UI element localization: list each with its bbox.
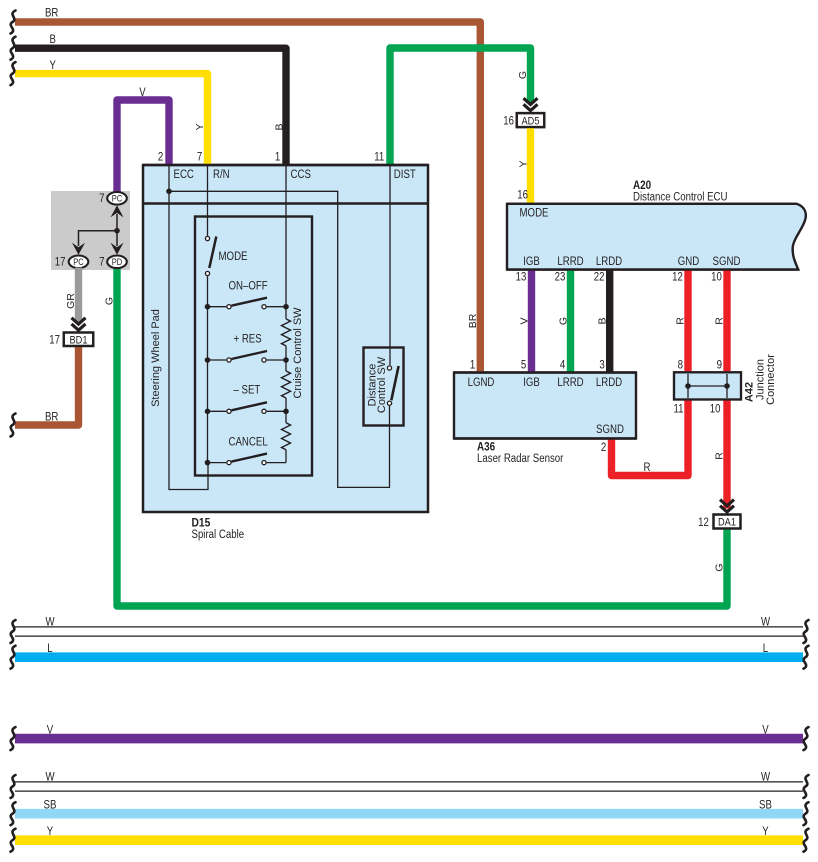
- switch ON-OFF: [205, 280, 289, 309]
- svg-text:G: G: [103, 297, 115, 305]
- switch Distance Control SW: [367, 356, 399, 487]
- svg-text:AD5: AD5: [522, 115, 540, 127]
- svg-text:4: 4: [560, 359, 566, 371]
- svg-text:16: 16: [503, 115, 514, 127]
- svg-text:R/N: R/N: [213, 169, 230, 181]
- svg-text:12: 12: [698, 517, 709, 529]
- wire Y: top horizontal to D15 pin 7 R/N: [11, 60, 208, 164]
- shielded/relay grey block around PC-PD connectors: [51, 191, 130, 270]
- svg-text:Control SW: Control SW: [376, 356, 388, 413]
- left contact rail of cruise switches: [207, 276, 209, 462]
- svg-text:22: 22: [594, 271, 605, 283]
- wire BR: from BD1 down and left to body harness: [11, 346, 79, 437]
- svg-text:V: V: [47, 724, 54, 736]
- wire BR label near A36: [467, 313, 479, 328]
- svg-text:16: 16: [517, 190, 528, 202]
- resistor between ON-OFF and +RES: [282, 319, 291, 346]
- svg-text:10: 10: [711, 271, 722, 283]
- switch MODE: [205, 236, 247, 275]
- svg-text:B: B: [50, 34, 57, 46]
- label D15 Spiral Cable: [192, 518, 245, 541]
- down arrow into 7 PD: [111, 231, 124, 255]
- svg-text:PD: PD: [112, 257, 123, 267]
- wire V: from D15 pin 2 ECC up and over to connector 7 PC: [117, 87, 169, 192]
- wire B: top horizontal to D15 pin 1 CCS: [11, 34, 287, 164]
- svg-text:Y: Y: [194, 123, 206, 130]
- svg-text:SGND: SGND: [713, 256, 741, 268]
- A42 pin numbers: [674, 359, 723, 415]
- svg-text:1: 1: [470, 359, 475, 371]
- svg-text:LRDD: LRDD: [596, 377, 622, 389]
- svg-text:R: R: [674, 317, 686, 325]
- junction node in grey block: [114, 228, 120, 234]
- switch CANCEL: [205, 436, 286, 465]
- svg-text:GND: GND: [678, 256, 700, 268]
- A42 junction connector block (body): [674, 372, 741, 399]
- wire V: A20 pin 13 IGB to A36 pin 5 IGB: [518, 270, 531, 372]
- svg-text:Y: Y: [47, 826, 54, 838]
- cruise control switch assembly box: [195, 217, 312, 476]
- svg-text:W: W: [761, 772, 770, 784]
- svg-text:V: V: [762, 724, 769, 736]
- svg-text:2: 2: [601, 442, 606, 454]
- svg-text:Spiral Cable: Spiral Cable: [192, 529, 245, 541]
- A36 pin 2 number: [601, 442, 606, 454]
- svg-text:+ RES: + RES: [234, 333, 262, 345]
- svg-text:CANCEL: CANCEL: [229, 436, 269, 448]
- svg-text:BR: BR: [45, 412, 58, 424]
- label A42 Junction Connector: [744, 354, 777, 405]
- switch - SET: [205, 384, 289, 414]
- arrow up into 7 PC with stem from junction: [111, 205, 124, 231]
- wire W bus run 2: [11, 772, 809, 798]
- svg-text:BD1: BD1: [70, 334, 88, 346]
- label A36 Laser Radar Sensor: [477, 442, 564, 465]
- A20 bottom pin numbers: [516, 271, 722, 283]
- svg-text:7: 7: [99, 193, 104, 205]
- svg-text:Laser Radar Sensor: Laser Radar Sensor: [477, 453, 564, 465]
- svg-text:DIST: DIST: [394, 169, 416, 181]
- svg-text:V: V: [139, 87, 146, 99]
- svg-text:LRRD: LRRD: [557, 256, 583, 268]
- svg-text:SGND: SGND: [596, 424, 624, 436]
- A42 junction connector border (over wires): [674, 372, 741, 399]
- A36 pin label SGND: [596, 424, 624, 436]
- svg-text:L: L: [47, 643, 53, 655]
- svg-text:2: 2: [158, 152, 163, 164]
- wire G: A20 pin 23 LRRD to A36 pin 4 LRRD: [557, 270, 570, 372]
- wire Y bus run: [11, 826, 809, 852]
- svg-text:9: 9: [717, 359, 722, 371]
- svg-text:MODE: MODE: [520, 208, 549, 220]
- wire R: A42 pin 10 down to connector DA1: [713, 401, 727, 509]
- svg-text:11: 11: [674, 404, 684, 416]
- svg-text:GR: GR: [65, 293, 77, 309]
- wire GR: from 17 PC down to connector BD1: [65, 268, 79, 323]
- svg-text:Steering Wheel Pad: Steering Wheel Pad: [150, 309, 162, 407]
- svg-text:12: 12: [672, 271, 683, 283]
- svg-text:DA1: DA1: [718, 517, 736, 529]
- svg-text:Cruise Control SW: Cruise Control SW: [292, 307, 304, 399]
- svg-text:G: G: [557, 317, 569, 325]
- branch line to 17 PC with down arrow: [72, 231, 117, 255]
- connector DA1 (pin 12): [698, 515, 740, 529]
- svg-text:W: W: [45, 617, 54, 629]
- svg-text:SB: SB: [759, 799, 772, 811]
- svg-text:5: 5: [521, 359, 526, 371]
- svg-text:V: V: [518, 317, 530, 324]
- svg-text:PC: PC: [73, 257, 84, 267]
- wire W bus run 1: [11, 617, 809, 643]
- D15 pin 1 CCS line: [275, 152, 311, 305]
- steering wheel pad / spiral cable block D15 (body): [143, 165, 428, 512]
- svg-text:17: 17: [49, 334, 60, 346]
- wire B: A20 pin 22 LRDD to A36 pin 3 LRDD: [597, 270, 610, 372]
- D15 pin 11 DIST line: [374, 152, 416, 366]
- distance control switch box: [364, 348, 404, 426]
- A20 bottom pin labels: [523, 256, 740, 268]
- svg-text:ECC: ECC: [174, 169, 194, 181]
- svg-text:MODE: MODE: [219, 251, 248, 263]
- connector arrow into BD1: [72, 318, 86, 330]
- svg-text:LRRD: LRRD: [557, 377, 583, 389]
- connector 17 PC (lower-left oval): [55, 255, 88, 268]
- svg-text:G: G: [517, 71, 529, 79]
- D15 pin 2 ECC line with junction and return path: [158, 152, 208, 490]
- A20 Distance Control ECU block (body, torn right edge): [507, 204, 806, 270]
- A20 pin label MODE: [520, 208, 549, 220]
- wire BR: battery feed, top horizontal to A36 pin 1 LGND: [11, 8, 481, 372]
- svg-text:Y: Y: [50, 60, 57, 72]
- svg-text:R: R: [644, 462, 651, 474]
- svg-text:G: G: [713, 563, 725, 571]
- svg-text:SB: SB: [44, 799, 57, 811]
- A42 internal links with junction dots: [685, 374, 730, 398]
- svg-text:W: W: [761, 617, 770, 629]
- svg-text:Y: Y: [762, 826, 769, 838]
- svg-text:3: 3: [599, 359, 604, 371]
- D15 pin 7 R/N line: [197, 152, 230, 236]
- svg-text:LRDD: LRDD: [596, 256, 622, 268]
- svg-text:11: 11: [374, 152, 384, 164]
- svg-text:7: 7: [99, 257, 104, 269]
- svg-text:R: R: [713, 452, 725, 460]
- A36 Laser Radar Sensor block (body): [454, 373, 636, 439]
- wire R: A42 pin 11 down, left, up to A36 pin 2 SGND: [612, 401, 689, 476]
- label A20 Distance Control ECU: [633, 180, 728, 204]
- svg-text:1: 1: [275, 152, 280, 164]
- D15 connector header divider: [143, 202, 428, 204]
- svg-text:CCS: CCS: [291, 169, 312, 181]
- right contact rail segments of resistor chain: [285, 307, 287, 463]
- svg-text:IGB: IGB: [523, 256, 540, 268]
- svg-text:R: R: [713, 317, 725, 325]
- wire G: DA1 down, across bottom, up to connector 7 PD: [103, 268, 727, 607]
- svg-text:Connector: Connector: [765, 354, 777, 405]
- svg-text:L: L: [763, 643, 769, 655]
- svg-text:23: 23: [555, 271, 566, 283]
- label: Steering Wheel Pad: [150, 309, 162, 407]
- connector 7 PC (upper oval): [99, 192, 127, 205]
- resistor between +RES and -SET: [282, 371, 291, 398]
- connector arrow into DA1: [720, 500, 734, 512]
- wire R: A20 pin 10 SGND to A42 pin 9: [713, 270, 727, 371]
- svg-text:A20: A20: [633, 180, 651, 192]
- connector BD1 (pin 17): [49, 333, 93, 347]
- connector 7 PD (lower-right oval): [99, 255, 127, 268]
- svg-text:7: 7: [197, 152, 202, 164]
- svg-text:B: B: [273, 123, 285, 130]
- svg-text:ON–OFF: ON–OFF: [229, 280, 268, 292]
- switch + RES: [205, 333, 289, 363]
- wire Y: from AD5 to A20 pin 16 MODE: [517, 127, 530, 203]
- svg-text:13: 13: [516, 271, 527, 283]
- A36 top pin numbers: [470, 359, 605, 371]
- label: Cruise Control SW: [292, 307, 304, 399]
- resistor between -SET and CANCEL: [282, 423, 291, 450]
- A36 top pin labels: [468, 377, 623, 389]
- svg-text:D15: D15: [192, 518, 211, 530]
- svg-text:LGND: LGND: [468, 377, 495, 389]
- svg-text:A36: A36: [477, 442, 495, 454]
- svg-text:PC: PC: [112, 194, 123, 204]
- connector arrow into AD5: [524, 98, 538, 110]
- ECC branch wire over to distance control switch leg: [169, 191, 390, 487]
- connector AD5 (pin 16): [503, 113, 544, 127]
- svg-text:– SET: – SET: [234, 384, 261, 396]
- svg-text:BR: BR: [467, 313, 479, 328]
- wire R: A20 pin 12 GND to A42 pin 8: [674, 270, 688, 371]
- svg-text:W: W: [45, 772, 54, 784]
- svg-text:BR: BR: [45, 8, 58, 20]
- wire G: from D15 pin 11 DIST up/right to connector AD5: [390, 48, 531, 164]
- svg-text:Y: Y: [517, 160, 529, 167]
- wire SB bus run: [11, 799, 809, 825]
- wire V bus run: [11, 724, 809, 750]
- box border re-strokes over wire stubs: [64, 113, 799, 529]
- node: ECC junction dot: [166, 189, 172, 195]
- wire L bus run: [11, 643, 809, 669]
- svg-text:IGB: IGB: [523, 377, 540, 389]
- svg-text:17: 17: [55, 257, 66, 269]
- svg-text:B: B: [597, 317, 609, 324]
- svg-text:10: 10: [710, 404, 721, 416]
- svg-text:Distance Control ECU: Distance Control ECU: [633, 192, 728, 204]
- svg-text:8: 8: [678, 359, 683, 371]
